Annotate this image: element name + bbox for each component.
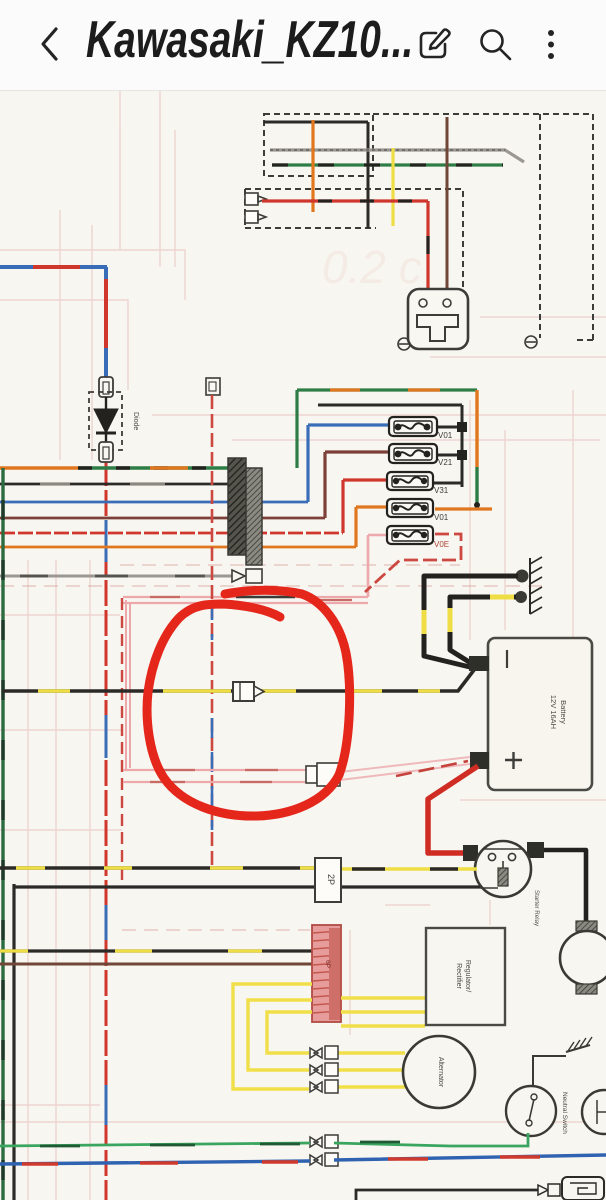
svg-text:Neutral Switch: Neutral Switch (561, 1092, 568, 1134)
svg-text:Battery: Battery (559, 700, 568, 724)
svg-text:Rectifier: Rectifier (455, 963, 462, 989)
svg-text:6P: 6P (324, 960, 331, 968)
svg-text:V21: V21 (438, 458, 453, 467)
svg-text:2P: 2P (326, 874, 336, 885)
svg-text:V01: V01 (434, 513, 449, 522)
svg-text:Starter Relay: Starter Relay (533, 890, 540, 927)
svg-text:V31: V31 (434, 486, 449, 495)
svg-text:12V 16AH: 12V 16AH (549, 695, 558, 729)
svg-text:Regulator/: Regulator/ (464, 960, 471, 992)
svg-text:Alternator: Alternator (437, 1057, 444, 1088)
svg-text:Diode: Diode (132, 412, 139, 430)
svg-text:0.2 c: 0.2 c (322, 241, 422, 293)
svg-text:V01: V01 (438, 431, 453, 440)
svg-text:V0E: V0E (434, 540, 449, 549)
